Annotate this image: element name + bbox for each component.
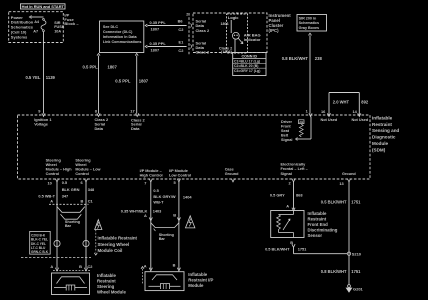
- svg-text:1806: 1806: [221, 22, 229, 26]
- svg-text:0.5 YEL: 0.5 YEL: [25, 75, 40, 80]
- wire 1807 0.5 PPL DLC to SDM pin 8: [97, 53, 100, 113]
- svg-text:Frontal – Left –: Frontal – Left –: [281, 167, 308, 171]
- svg-text:Front End: Front End: [308, 222, 329, 227]
- splice S210: [347, 252, 362, 257]
- svg-text:1403: 1403: [153, 209, 162, 214]
- wire 1404 SDM pin 5 to I/P module B: [178, 182, 180, 270]
- cluster pin bracket E1: [191, 45, 192, 49]
- svg-text:Inflatable: Inflatable: [308, 211, 327, 216]
- pin 10: [48, 179, 59, 186]
- AIR BAG indicator lamp U1: [232, 32, 242, 43]
- svg-text:SIR 200 in: SIR 200 in: [299, 16, 317, 20]
- svg-text:Module: Module: [372, 141, 389, 146]
- label 0.35 PPL 1807: [150, 20, 167, 32]
- svg-text:C2: C2: [178, 27, 184, 32]
- svg-text:C1=BLU 17 (Lg): C1=BLU 17 (Lg): [234, 59, 260, 63]
- wire 1139 0.5 YEL fuse to SDM pin 9: [43, 32, 45, 114]
- svg-text:Module – High: Module – High: [46, 168, 73, 172]
- net case ground: [225, 167, 239, 176]
- pin B6 connector C2: [178, 19, 185, 33]
- net class 2 1806 lower label: [219, 46, 233, 54]
- pin 13: [339, 179, 350, 186]
- wire indicator to cluster logic return: [234, 40, 236, 53]
- pin 1: [306, 109, 313, 117]
- inflatable restraint steering wheel module (airbag) drawing: [52, 273, 90, 295]
- svg-text:Restraint: Restraint: [372, 122, 392, 127]
- svg-text:Module: Module: [188, 283, 204, 288]
- svg-text:C3=GRY 17 (Lg): C3=GRY 17 (Lg): [234, 69, 260, 73]
- svg-text:High Control: High Control: [140, 174, 163, 178]
- svg-text:1807: 1807: [151, 27, 160, 32]
- svg-text:238: 238: [315, 56, 323, 61]
- wire 1403 SDM pin 7 to I/P module A: [150, 182, 152, 270]
- svg-text:868: 868: [296, 193, 303, 198]
- svg-text:Bar: Bar: [65, 224, 72, 228]
- net ignition 1 voltage: [34, 117, 52, 127]
- svg-text:892: 892: [361, 100, 369, 105]
- svg-text:Signal: Signal: [281, 138, 292, 142]
- svg-text:Control: Control: [75, 172, 89, 176]
- note box SIR reference: [297, 15, 327, 32]
- svg-text:1807: 1807: [139, 79, 149, 84]
- svg-text:CONN ID: CONN ID: [242, 54, 258, 58]
- svg-text:0.5 GRY: 0.5 GRY: [270, 193, 285, 198]
- wire 347 SDM pin 10 to coil A: [56, 182, 58, 269]
- inflatable restraint I/P module (airbag) drawing: [145, 272, 184, 291]
- wire 1751 0.8 BLK/WHT SDM pin 13 to ground: [348, 182, 350, 285]
- svg-text:BLK GRN: BLK GRN: [62, 187, 80, 192]
- label SDM: [372, 115, 400, 152]
- connector C2 pin 2 label: [186, 13, 188, 17]
- inflatable restraint front end discriminating sensor box: [271, 211, 304, 238]
- svg-text:C2=BLK 20 (B): C2=BLK 20 (B): [234, 64, 258, 68]
- label shorting bar: [65, 220, 80, 228]
- coil ring A: [54, 240, 60, 246]
- svg-text:0.5 PPL: 0.5 PPL: [115, 79, 131, 84]
- coil ring B: [83, 240, 89, 246]
- svg-text:10A: 10A: [54, 29, 61, 33]
- net serial data class 2 upper: [196, 18, 210, 33]
- svg-text:A: A: [144, 213, 147, 218]
- svg-text:C1: C1: [88, 199, 94, 204]
- net not used pin 14: [352, 118, 369, 122]
- svg-text:Not Used: Not Used: [321, 118, 338, 122]
- connector C2 module lower: [50, 264, 93, 271]
- svg-text:Bar: Bar: [159, 237, 166, 241]
- svg-text:0.5 PPL: 0.5 PPL: [83, 65, 99, 70]
- svg-text:1751: 1751: [351, 200, 361, 205]
- svg-text:0.35 PPL: 0.35 PPL: [150, 41, 167, 46]
- net I/P module low control: [169, 169, 191, 178]
- label 2.0 WHT 892: [333, 100, 369, 105]
- net not used pin 16: [321, 118, 338, 122]
- label inflatable restraint front end discriminating sensor: [308, 211, 338, 238]
- cluster harness connector dashed line: [188, 13, 190, 55]
- svg-text:0.5: 0.5: [62, 180, 68, 185]
- wire 1807 0.35 PPL cluster B6 to DLC: [145, 24, 186, 27]
- svg-text:Steering: Steering: [75, 158, 91, 162]
- logic block dashed box: [227, 14, 248, 53]
- pin 14: [353, 109, 361, 117]
- svg-text:A: A: [286, 204, 289, 209]
- svg-text:Module Coil: Module Coil: [98, 248, 123, 253]
- connector I/P lower: [144, 263, 181, 271]
- svg-text:Voltage: Voltage: [34, 122, 49, 127]
- label Instrument Panel Cluster IPC: [269, 13, 292, 33]
- label 0.8 BLK/WHT 238: [282, 56, 323, 61]
- net steering wheel module low control: [75, 158, 100, 176]
- shorting bar link: [151, 223, 179, 231]
- svg-text:0.8 BLK/WHT: 0.8 BLK/WHT: [321, 269, 347, 274]
- label inflatable restraint steering wheel module: [97, 273, 126, 295]
- svg-text:A: A: [144, 263, 147, 268]
- fuse label SIR FUSE 10A: [54, 21, 65, 33]
- svg-text:0.5: 0.5: [153, 188, 159, 193]
- SDM internal sense box: [299, 120, 305, 124]
- svg-text:A: A: [50, 199, 53, 204]
- svg-text:Front: Front: [281, 125, 291, 129]
- svg-text:B6: B6: [178, 19, 184, 24]
- label 0.5 PPL 1807: [83, 65, 118, 70]
- svg-text:(IPC): (IPC): [269, 28, 280, 33]
- label 0.35 PPL 1807: [150, 41, 167, 53]
- SDM internal wire to signal arrow: [296, 138, 311, 141]
- svg-text:(SDM): (SDM): [372, 148, 386, 153]
- label 0.8 BLK/WHT 1751: [321, 200, 361, 205]
- wire 868 0.5 GRY SDM pin 2 to sensor A: [293, 182, 295, 210]
- connector position marker arrow down: [94, 230, 97, 256]
- svg-text:Inflatable Restraint: Inflatable Restraint: [98, 235, 138, 240]
- pin case ground: [231, 179, 234, 182]
- connector pin A sensor: [286, 204, 295, 211]
- label I/P Fuse Block: [64, 13, 79, 27]
- svg-text:2: 2: [186, 13, 188, 17]
- svg-text:Belt: Belt: [281, 134, 289, 138]
- terminal A4: [34, 20, 40, 24]
- svg-text:1807: 1807: [108, 65, 118, 70]
- connector ID table: [233, 53, 266, 76]
- coil connector bracket upper: [57, 207, 85, 213]
- net ground pin 13: [342, 172, 356, 176]
- svg-text:Class 2: Class 2: [196, 50, 210, 55]
- cluster pin bracket B6: [191, 24, 192, 28]
- svg-text:Steering: Steering: [46, 158, 62, 162]
- svg-text:Restraint I/P: Restraint I/P: [188, 277, 213, 282]
- svg-text:Driver: Driver: [281, 120, 292, 124]
- svg-text:1751: 1751: [298, 247, 307, 252]
- svg-text:Ground: Ground: [342, 172, 356, 176]
- net class 2 serial data pin 8: [95, 117, 109, 131]
- svg-text:Restraint: Restraint: [308, 217, 327, 222]
- wire 1751 0.5 BLK/WHT sensor B to splice S210: [294, 247, 348, 253]
- pin 17: [130, 109, 139, 117]
- svg-text:Sensor: Sensor: [308, 233, 323, 238]
- SDM internal wire from pin 1: [310, 117, 312, 140]
- svg-text:2.0 WHT: 2.0 WHT: [333, 100, 350, 105]
- svg-text:G201: G201: [353, 286, 364, 291]
- label AIR BAG Indicator: [244, 33, 261, 42]
- svg-text:Data: Data: [95, 126, 104, 131]
- svg-text:Data: Data: [131, 126, 140, 131]
- svg-text:Case: Case: [225, 167, 234, 171]
- fuse block reference text: [11, 15, 34, 40]
- label 0.5 BLK GRY/W WB-T 1404: [153, 188, 192, 204]
- svg-text:Low Control: Low Control: [169, 174, 191, 178]
- svg-text:Steering: Steering: [97, 284, 115, 289]
- svg-text:Diagnostic: Diagnostic: [372, 135, 396, 140]
- svg-text:B: B: [81, 199, 84, 204]
- pin 9: [38, 109, 45, 117]
- connector I/P upper: [144, 212, 181, 220]
- svg-text:Sensing and: Sensing and: [372, 128, 400, 133]
- svg-text:I/P Module –: I/P Module –: [140, 169, 162, 173]
- svg-text:A7: A7: [33, 29, 38, 33]
- DLC note box: [100, 21, 144, 53]
- label 0.5 BLK GRN 348: [62, 180, 95, 192]
- label 0.5 PPL 1807: [115, 79, 148, 84]
- svg-text:17: 17: [130, 109, 134, 114]
- coil connector bracket lower: [61, 214, 82, 219]
- svg-text:Connector (DLC): Connector (DLC): [103, 30, 133, 34]
- label 0.5 BLK/WHT 1751: [265, 247, 307, 252]
- svg-text:0.35 PPL: 0.35 PPL: [150, 20, 167, 25]
- svg-text:See DLC: See DLC: [103, 25, 119, 29]
- svg-text:Inflatable: Inflatable: [188, 272, 207, 277]
- svg-text:Information In Data: Information In Data: [103, 35, 138, 39]
- pin 2: [289, 179, 296, 186]
- svg-text:Ground: Ground: [225, 172, 239, 176]
- SIR warning triangle W2: [186, 216, 195, 228]
- svg-text:Electronically: Electronically: [281, 163, 307, 167]
- svg-text:1807: 1807: [151, 48, 160, 53]
- svg-text:Module – Low: Module – Low: [75, 168, 100, 172]
- svg-text:Wheel Module: Wheel Module: [97, 290, 126, 295]
- svg-text:1139: 1139: [46, 75, 56, 80]
- svg-text:Not Used: Not Used: [352, 118, 369, 122]
- svg-text:B: B: [173, 212, 176, 217]
- svg-text:GRN-C B-K: GRN-C B-K: [31, 250, 49, 254]
- connector position marker arrow up: [141, 267, 144, 284]
- svg-text:0.5 BLK/WHT: 0.5 BLK/WHT: [265, 247, 290, 252]
- net I/P module high control: [140, 169, 163, 178]
- svg-text:Inflatable: Inflatable: [372, 115, 393, 120]
- pin 7: [144, 179, 152, 186]
- jumper wire 892 2.0 WHT pins 16 to 14: [329, 93, 359, 116]
- svg-text:Inflatable: Inflatable: [97, 273, 116, 278]
- svg-text:1751: 1751: [351, 269, 361, 274]
- instrument panel cluster dashed box: [193, 13, 267, 53]
- svg-text:Signal: Signal: [281, 172, 292, 176]
- label 0.35 WHT/BLK 1403: [121, 209, 162, 214]
- svg-text:S210: S210: [352, 252, 362, 257]
- svg-text:BLK GRY/W: BLK GRY/W: [153, 194, 175, 199]
- connector C203 dashed line: [21, 256, 91, 258]
- net 1806 label: [221, 22, 229, 26]
- svg-text:C2: C2: [88, 264, 94, 269]
- label 0.5 WB-T 347: [38, 193, 68, 198]
- svg-text:I/P Module: I/P Module: [169, 169, 188, 173]
- svg-text:0.8 BLK/WHT: 0.8 BLK/WHT: [282, 56, 309, 61]
- header box "Hot In RUN and START": [21, 4, 66, 9]
- svg-text:Wheel: Wheel: [75, 163, 86, 167]
- net serial data class 2 lower: [196, 41, 210, 55]
- svg-text:E1: E1: [179, 39, 185, 44]
- label inflatable restraint steering wheel module coil: [98, 235, 138, 253]
- I/P fuse block dashed box: [9, 12, 64, 43]
- svg-text:B: B: [173, 263, 176, 268]
- svg-text:Control: Control: [46, 172, 60, 176]
- inflatable restraint sensing and diagnostic module SDM dashed box: [18, 115, 371, 179]
- pin E1 connector C2: [178, 39, 184, 53]
- svg-text:Restraint: Restraint: [97, 279, 116, 284]
- wire 1807 0.35 PPL cluster E1 to DLC: [145, 45, 186, 48]
- label 0.8 BLK/WHT 1751 lower: [321, 269, 361, 274]
- wire 1807 0.5 PPL DLC to SDM pin 17: [135, 53, 138, 113]
- svg-text:Schematics: Schematics: [299, 21, 320, 25]
- svg-text:0.5 BLK/WHT: 0.5 BLK/WHT: [321, 200, 347, 205]
- label 0.5 YEL 1139: [25, 75, 55, 80]
- svg-text:AB: AB: [299, 120, 303, 124]
- svg-text:Gray Boxes: Gray Boxes: [299, 26, 320, 30]
- terminal A7: [33, 29, 38, 33]
- wire logic to indicator: [230, 20, 232, 33]
- label 0.5 GRY 868: [270, 193, 303, 198]
- svg-text:Link Communications: Link Communications: [103, 40, 142, 44]
- ground G201: [346, 285, 363, 292]
- label inflatable restraint I/P module: [188, 272, 213, 288]
- svg-text:C2: C2: [178, 48, 184, 53]
- fuse F10 SIR 10A: [41, 18, 46, 31]
- resistor R1 internal: [299, 124, 303, 137]
- pin 8: [95, 109, 100, 117]
- net steering wheel module high control: [46, 158, 73, 176]
- svg-text:347: 347: [62, 193, 68, 198]
- svg-text:Indicator: Indicator: [244, 37, 261, 42]
- pin 5: [174, 179, 181, 185]
- svg-text:A: A: [50, 264, 53, 269]
- svg-text:7: 7: [144, 180, 146, 185]
- svg-text:348: 348: [88, 187, 95, 192]
- svg-text:WB-T: WB-T: [153, 199, 164, 204]
- pin 6: [81, 179, 88, 185]
- svg-text:Hot In RUN and START: Hot In RUN and START: [22, 4, 65, 9]
- wire 238 0.8 BLK/WHT to SDM pin 1: [309, 33, 312, 113]
- connector C1 coil upper: [49, 199, 94, 205]
- svg-text:1404: 1404: [183, 194, 192, 199]
- svg-text:Class 2: Class 2: [196, 28, 210, 33]
- svg-text:Discriminating: Discriminating: [308, 228, 338, 233]
- svg-text:Wheel: Wheel: [46, 163, 57, 167]
- svg-text:Systems: Systems: [11, 34, 28, 39]
- wire color legend table: [30, 231, 51, 254]
- net electronic front end sensor signal: [281, 163, 308, 176]
- SIR warning triangle W1: [95, 220, 102, 230]
- svg-text:Seat: Seat: [281, 129, 290, 133]
- wire arrow into fuse from bus: [29, 16, 43, 19]
- svg-text:Logic: Logic: [228, 15, 239, 20]
- SDM internal driver seat belt signal text: [281, 120, 292, 142]
- svg-text:10: 10: [48, 180, 52, 185]
- label shorting bar: [159, 233, 174, 241]
- svg-text:Steering Wheel: Steering Wheel: [98, 242, 130, 247]
- wire 348 SDM pin 6 to coil B: [85, 182, 87, 269]
- svg-text:B: B: [79, 264, 82, 269]
- net class 2 serial data pin 17: [131, 117, 145, 131]
- pin 16: [321, 109, 331, 117]
- connector pin B sensor: [290, 240, 295, 247]
- svg-text:Block –: Block –: [64, 21, 79, 26]
